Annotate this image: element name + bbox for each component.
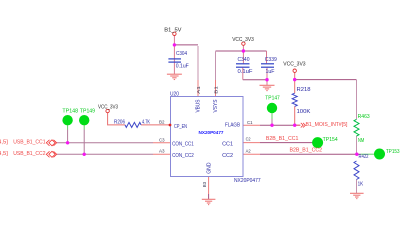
svg-text:R422: R422 [359,154,369,160]
svg-text:TP149: TP149 [80,109,95,115]
svg-text:[4,5]: [4,5] [0,151,9,157]
svg-text:A1: A1 [196,85,201,93]
svg-text:VCC_3V3: VCC_3V3 [232,37,254,43]
svg-text:U20: U20 [170,91,179,97]
svg-text:[4,5]: [4,5] [0,140,9,146]
svg-text:1uF: 1uF [266,69,275,75]
svg-text:C3: C3 [159,137,165,142]
svg-text:100K: 100K [297,109,312,115]
svg-text:C340: C340 [238,57,250,63]
svg-text:C304: C304 [176,51,187,57]
svg-text:A2: A2 [246,148,252,153]
svg-text:R463: R463 [358,114,370,120]
svg-text:A3: A3 [159,149,165,154]
svg-text:B1_MOIS_INT#[5]: B1_MOIS_INT#[5] [306,122,349,128]
svg-text:R218: R218 [297,87,311,93]
svg-text:USB_B1_CC1: USB_B1_CC1 [13,140,45,146]
svg-text:B1_5V: B1_5V [164,27,182,33]
svg-text:FLAGB: FLAGB [225,122,241,128]
svg-text:CC1: CC1 [222,142,233,148]
svg-text:NX20P0477: NX20P0477 [234,178,261,184]
svg-text:B2B_B1_CC2: B2B_B1_CC2 [290,148,323,154]
svg-text:C1: C1 [247,120,253,125]
svg-text:NX20P0477: NX20P0477 [199,130,224,136]
svg-text:B2: B2 [159,120,165,125]
svg-text:B1: B1 [213,85,218,93]
svg-text:NM: NM [358,138,364,144]
svg-text:USB_B1_CC2: USB_B1_CC2 [13,151,45,157]
svg-text:0.1uF: 0.1uF [176,63,189,69]
svg-text:TP154: TP154 [323,137,338,143]
svg-text:0.1uF: 0.1uF [238,69,253,75]
svg-text:VCC_3V3: VCC_3V3 [283,62,306,68]
svg-text:C339: C339 [265,57,277,63]
svg-text:4.7K: 4.7K [142,119,151,125]
svg-text:CON_CC1: CON_CC1 [172,142,194,148]
svg-text:GND: GND [207,162,213,174]
svg-text:TP147: TP147 [265,96,280,102]
svg-text:CON_CC2: CON_CC2 [172,153,194,159]
svg-text:VBUS: VBUS [196,99,202,113]
svg-text:VCC_3V3: VCC_3V3 [98,104,118,110]
svg-text:CP_EN: CP_EN [174,124,187,130]
svg-text:R206: R206 [114,120,125,126]
svg-text:TP148: TP148 [62,109,78,115]
svg-text:B3: B3 [202,181,207,187]
svg-text:VSYS: VSYS [213,99,219,113]
svg-text:CC2: CC2 [222,153,233,159]
svg-text:B2B_B1_CC1: B2B_B1_CC1 [266,136,299,142]
svg-text:C2: C2 [246,136,252,141]
svg-text:TP153: TP153 [386,149,400,155]
svg-text:1K: 1K [358,182,364,188]
